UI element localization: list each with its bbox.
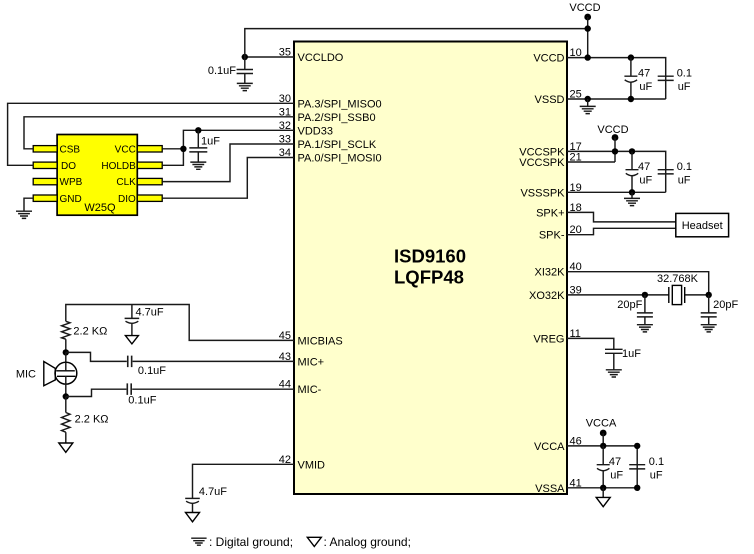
capacitor 1uF on VREG [605, 348, 641, 370]
node pin19 junction [629, 189, 635, 195]
digital ground at VSSSPK [624, 198, 640, 205]
svg-text:1uF: 1uF [622, 348, 641, 360]
wire pin35 VCCLDO stub [245, 56, 294, 58]
wire pin17 VCCSPK net [567, 151, 666, 192]
svg-text:Headset: Headset [682, 220, 723, 232]
pin 44 MIC- label [279, 379, 322, 397]
svg-text:VCCD: VCCD [597, 124, 628, 136]
node VCCD top supply [569, 2, 600, 57]
capacitor 47uF on VCCD [624, 58, 652, 99]
pin 19 VSSSPK label [520, 182, 581, 200]
pin 45 MICBIAS label [279, 330, 343, 348]
wire pin30 net to W25Q DO [8, 103, 294, 165]
svg-text:GND: GND [60, 194, 82, 205]
svg-text:HOLDB: HOLDB [101, 161, 136, 172]
pin 20 SPK- label [539, 224, 582, 242]
pin 30 PA.3/SPI_MISO0 label [279, 93, 382, 111]
legend digital ground text [209, 535, 293, 549]
capacitor 0.1uF series MIC- [127, 383, 156, 406]
capacitor 0.1uF on VCCD [658, 67, 692, 93]
capacitor 20pF right [701, 295, 739, 325]
wire VSSD ground lead [587, 99, 589, 106]
pin 41 VSSA label [535, 477, 582, 495]
legend digital ground symbol [191, 538, 206, 545]
svg-text:47: 47 [609, 456, 621, 468]
capacitor 47uF on VCCSPK [626, 151, 653, 192]
pin 32 VDD33 label [279, 120, 333, 138]
svg-text:PA.3/SPI_MISO0: PA.3/SPI_MISO0 [298, 98, 382, 110]
svg-text:VSSA: VSSA [535, 483, 565, 495]
svg-text:PA.2/SPI_SSB0: PA.2/SPI_SSB0 [298, 112, 376, 124]
node pin17 junctions [612, 148, 635, 154]
svg-text:32.768K: 32.768K [657, 273, 699, 285]
pin 11 VREG label [533, 328, 581, 346]
wire VSSA ground lead [602, 488, 604, 498]
capacitor 47uF on VCCA [597, 446, 624, 488]
svg-text:uF: uF [639, 175, 652, 187]
pin 17 VCCSPK label [519, 141, 582, 159]
wire resistor to analog ground [65, 432, 67, 443]
microphone MIC [16, 352, 77, 396]
analog ground at 4.7uF [125, 336, 138, 344]
svg-text:CLK: CLK [116, 177, 136, 188]
node XO32K junction [642, 292, 648, 298]
svg-text:MIC: MIC [16, 369, 36, 381]
capacitor 0.1uF series MIC+ [128, 356, 167, 377]
svg-text:DO: DO [61, 161, 76, 172]
wire SPK- net pin20 [567, 228, 676, 234]
svg-text:DIO: DIO [118, 194, 136, 205]
svg-text:VCCSPK: VCCSPK [519, 157, 565, 169]
legend analog ground text [324, 535, 411, 549]
svg-text:MIC+: MIC+ [298, 356, 325, 368]
wire MIC+ branch [66, 352, 294, 361]
svg-text:0.1: 0.1 [677, 67, 692, 79]
pin 31 PA.2/SPI_SSB0 label [279, 106, 376, 124]
node pin46 junctions [600, 443, 640, 449]
svg-text:0.1uF: 0.1uF [128, 395, 156, 407]
pin 21 VCCSPK label [519, 152, 582, 170]
digital ground at VCCLDO cap [237, 83, 253, 90]
svg-text:ISD9160: ISD9160 [394, 246, 466, 267]
wire pin31 net to W25Q CSB [24, 117, 294, 149]
pin 39 XO32K label [529, 284, 582, 302]
wire MIC- branch [66, 389, 294, 396]
W25Q pin CLK [116, 177, 162, 188]
node VCC junction [180, 146, 186, 152]
node pin41 junction [600, 485, 640, 491]
svg-text:uF: uF [639, 81, 652, 93]
svg-text:0.1: 0.1 [677, 161, 692, 173]
analog ground at VSSA [596, 497, 610, 506]
W25Q pin CSB [33, 144, 80, 155]
svg-text:VSSSPK: VSSSPK [520, 187, 565, 199]
pin 43 MIC+ label [279, 351, 324, 369]
W25Q pin HOLDB [101, 161, 162, 172]
svg-text:0.1uF: 0.1uF [138, 365, 166, 377]
svg-text:2.2 KΩ: 2.2 KΩ [73, 325, 107, 337]
W25Q pin DIO [118, 194, 162, 205]
digital ground at W25Q GND [16, 211, 32, 218]
headset box [676, 213, 729, 236]
wire SPK+ net pin18 [567, 212, 676, 222]
wire resistor to mic node [65, 339, 67, 352]
svg-text:0.1: 0.1 [649, 456, 664, 468]
svg-text:XO32K: XO32K [529, 290, 565, 302]
node mic top junction [63, 349, 69, 355]
capacitor 0.1uF on VCCA [629, 456, 664, 481]
svg-text:20pF: 20pF [713, 299, 738, 311]
svg-text:SPK-: SPK- [539, 230, 565, 242]
analog ground below mic resistor [59, 443, 73, 452]
capacitor 4.7uF on VMID [185, 486, 227, 512]
wire pin41 VSSA net [567, 487, 637, 489]
pin 10 VCCD label [533, 47, 581, 65]
svg-text:VCCD: VCCD [569, 2, 600, 14]
wire VSSSPK ground lead [631, 192, 633, 198]
node mic bottom junction [63, 393, 69, 399]
svg-text:uF: uF [678, 175, 691, 187]
pin 42 VMID label [279, 454, 325, 472]
svg-text:LQFP48: LQFP48 [394, 266, 464, 287]
svg-text:1uF: 1uF [201, 136, 220, 148]
analog ground at VMID cap [186, 513, 200, 522]
svg-text:SPK+: SPK+ [536, 207, 564, 219]
node VCCA supply [586, 418, 617, 446]
IC U1 ISD9160 body [294, 42, 567, 495]
wire W25Q VCC to VDD33 vertical [162, 148, 183, 150]
capacitor 0.1uF on VCCLDO [208, 57, 253, 83]
svg-text:PA.1/SPI_SCLK: PA.1/SPI_SCLK [298, 139, 377, 151]
svg-text:20pF: 20pF [617, 299, 642, 311]
wire VMID net pin42 [193, 464, 295, 499]
node VDD33 cap junction [195, 127, 201, 133]
flash chip U2 W25Q body [57, 135, 137, 216]
capacitor 1uF on VDD33 [189, 130, 220, 162]
wire pin46 VCCA net [567, 446, 637, 488]
pin 34 PA.0/SPI_MOSI0 label [279, 147, 382, 165]
svg-text:VMID: VMID [298, 459, 326, 471]
node pin25 junctions [585, 96, 635, 102]
svg-text:2.2 KΩ: 2.2 KΩ [75, 414, 109, 426]
svg-text:: Digital ground;: : Digital ground; [209, 535, 293, 549]
wire W25Q GND to ground [24, 198, 33, 211]
W25Q pin WPB [33, 177, 82, 188]
svg-text:uF: uF [678, 81, 691, 93]
svg-text:: Analog ground;: : Analog ground; [324, 535, 411, 549]
svg-text:WPB: WPB [60, 177, 83, 188]
svg-text:47: 47 [638, 67, 650, 79]
wire VCCLDO riser to VCCD rail [245, 29, 588, 57]
wire pin32 VDD33 net to W25Q HOLDB [162, 130, 294, 165]
svg-text:uF: uF [650, 469, 663, 481]
svg-text:VCC: VCC [115, 144, 136, 155]
pin 33 PA.1/SPI_SCLK label [279, 134, 377, 152]
wire XI32K net pin40 [567, 272, 709, 295]
svg-text:VDD33: VDD33 [298, 125, 333, 137]
wire pin33 net to W25Q CLK [162, 144, 294, 182]
digital ground at VREG cap [606, 370, 622, 377]
node XI32K junction [706, 292, 712, 298]
svg-text:MIC-: MIC- [298, 384, 322, 396]
resistor 2.2K lower [62, 413, 109, 433]
node VCCD supply at VCCSPK [597, 124, 628, 162]
digital ground at 20pF right [701, 325, 717, 332]
svg-text:47: 47 [638, 161, 650, 173]
svg-text:W25Q: W25Q [84, 202, 116, 214]
capacitor 4.7uF on MICBIAS [125, 305, 164, 336]
wire mic node to lower resistor [65, 397, 67, 413]
pin 35 VCCLDO label [279, 47, 344, 65]
wire pin21 VCCSPK stub [567, 161, 615, 163]
crystal 32.768K [657, 273, 699, 304]
svg-text:VSSD: VSSD [535, 94, 565, 106]
svg-text:uF: uF [610, 469, 623, 481]
svg-text:4.7uF: 4.7uF [136, 306, 164, 318]
svg-text:MICBIAS: MICBIAS [298, 335, 343, 347]
digital ground at VSSD [580, 106, 596, 113]
svg-text:VCCA: VCCA [534, 441, 565, 453]
svg-text:XI32K: XI32K [535, 267, 566, 279]
pin 40 XI32K label [535, 261, 582, 279]
svg-text:VCCLDO: VCCLDO [298, 52, 344, 64]
svg-text:0.1uF: 0.1uF [208, 65, 236, 77]
wire VREG net pin11 [567, 338, 614, 349]
digital ground at 20pF left [637, 325, 653, 332]
svg-text:VCCA: VCCA [586, 418, 617, 430]
node VCCLDO junction [242, 54, 248, 60]
capacitor 20pF left [617, 295, 653, 325]
wire pin10 VCCD net [567, 58, 666, 99]
node pin10 junctions [585, 54, 635, 60]
wire XO32K net pin39 [567, 294, 709, 296]
pin 46 VCCA label [534, 435, 582, 453]
wire MICBIAS net pin45 [66, 305, 294, 341]
wire pin19 VSSSPK net [567, 191, 666, 193]
wire pin25 VSSD net [567, 98, 666, 100]
resistor 2.2K upper [62, 321, 108, 339]
W25Q pin DO [33, 161, 76, 172]
digital ground at 1uF [190, 162, 206, 169]
wire pin34 net to W25Q DIO [162, 158, 294, 199]
svg-text:VCCD: VCCD [533, 53, 564, 65]
pin 25 VSSD label [535, 89, 582, 107]
svg-text:CSB: CSB [60, 144, 81, 155]
svg-text:VREG: VREG [533, 333, 564, 345]
W25Q pin GND [33, 194, 82, 205]
svg-text:PA.0/SPI_MOSI0: PA.0/SPI_MOSI0 [298, 153, 382, 165]
legend analog ground symbol [307, 537, 321, 546]
pin 18 SPK+ label [536, 202, 582, 220]
W25Q pin VCC [115, 144, 163, 155]
svg-text:4.7uF: 4.7uF [199, 486, 227, 498]
capacitor 0.1uF on VCCSPK [658, 161, 692, 187]
